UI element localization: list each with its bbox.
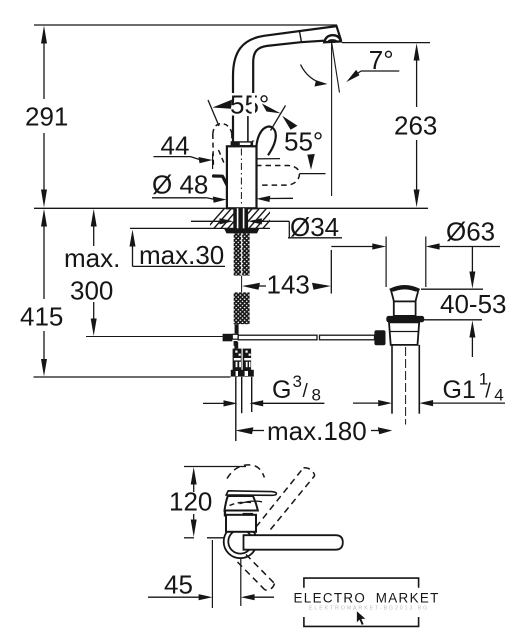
- angle 55 deg upper label: [208, 90, 276, 127]
- wire 263 top reference line: [342, 42, 430, 44]
- wire deck top line: [34, 207, 428, 209]
- threaded rod upper segment: [234, 233, 250, 275]
- pop-up drain body: [389, 322, 419, 345]
- side view handle blade: [226, 491, 276, 496]
- dimension 120: [169, 467, 246, 538]
- svg-text:120: 120: [169, 487, 212, 517]
- svg-text:max.180: max.180: [267, 416, 367, 446]
- pop-up drain neck: [391, 292, 418, 302]
- mouse cursor: [357, 611, 366, 625]
- pop-up drain cylinder: [394, 301, 416, 316]
- handle dashed outline right (capsule B): [256, 166, 299, 186]
- side view spout bar: [244, 535, 343, 550]
- dimension 40-53: [421, 247, 507, 358]
- handle lever (side, solid): [214, 176, 228, 185]
- svg-text:263: 263: [394, 111, 437, 141]
- svg-text:Ø63: Ø63: [446, 217, 495, 247]
- faucet body top black band: [231, 141, 254, 146]
- dimension G 3/8: [203, 372, 324, 407]
- drain tailpipe: [392, 345, 419, 414]
- faucet body centerline: [240, 149, 242, 207]
- rod center highlight: [241, 233, 243, 275]
- svg-text:8: 8: [312, 386, 321, 405]
- threaded shank through deck: [233, 208, 248, 228]
- pop-up drain flange: [386, 316, 424, 322]
- spout joint divider: [299, 30, 301, 42]
- dimension max.30: [130, 230, 226, 271]
- pop-up rod cross fitting: [223, 334, 239, 346]
- pop-up drain plug cap: [390, 287, 419, 291]
- svg-text:max.: max.: [64, 243, 120, 273]
- dimension 415: [20, 209, 231, 377]
- svg-text:55°: 55°: [284, 127, 323, 157]
- handle dashed outline up-left (capsule A): [213, 124, 232, 167]
- dimension 263: [394, 43, 437, 207]
- handle solid rotated-up (arch): [256, 127, 275, 156]
- svg-text:Ø 48: Ø 48: [152, 170, 208, 200]
- svg-text:300: 300: [70, 276, 113, 306]
- pop-up drain lever boss: [374, 330, 385, 345]
- svg-text:/: /: [303, 381, 309, 402]
- svg-text:max.30: max.30: [139, 240, 224, 270]
- flexible hoses: [236, 377, 252, 441]
- water stream tilted 7 deg line: [332, 42, 340, 93]
- aerator at spout tip: [324, 35, 341, 43]
- angle 55 deg lower label: [262, 104, 323, 170]
- svg-text:G: G: [272, 376, 291, 404]
- side view handle dome: [225, 496, 258, 511]
- svg-text:415: 415: [20, 302, 63, 332]
- dimension 44: [154, 131, 281, 170]
- side view dashed blade down position: [238, 555, 275, 591]
- connector flange: [231, 370, 254, 377]
- svg-text:40-53: 40-53: [440, 289, 507, 319]
- countertop hatch block: [205, 206, 283, 231]
- water stream vertical line: [331, 42, 333, 196]
- svg-text:143: 143: [267, 270, 310, 300]
- dimension 291: [25, 26, 68, 208]
- wire deck bottom line (max.30): [130, 227, 270, 229]
- svg-text:Ø34: Ø34: [290, 212, 339, 242]
- dimension diameter 34: [191, 212, 342, 242]
- spout inner line mask below 55 label: [252, 96, 255, 141]
- dimension max.180: [235, 416, 392, 446]
- dimension diameter 48: [152, 170, 293, 203]
- wire capsule B tip leader: [299, 173, 325, 175]
- svg-text:ELECTRO MARKET: ELECTRO MARKET: [294, 590, 440, 605]
- side view escutcheon circles: [224, 525, 257, 558]
- G 3/8 hose connectors: [231, 342, 254, 377]
- svg-text:G1: G1: [443, 376, 476, 404]
- svg-text:4: 4: [494, 386, 503, 405]
- angle 7 deg callout: [301, 45, 400, 87]
- svg-text:ELEKTROMARKET-BG2013.BG: ELEKTROMARKET-BG2013.BG: [309, 605, 429, 611]
- faucet spout outline: [233, 26, 341, 146]
- threaded rod lower segment: [234, 292, 250, 324]
- spout inner edge lower segment: [247, 116, 249, 142]
- dimension max.300: [64, 209, 223, 337]
- lift rod stem: [235, 324, 239, 334]
- svg-text:3: 3: [293, 372, 302, 391]
- dimension diameter 63: [331, 217, 500, 288]
- dimension 143: [242, 250, 331, 300]
- side view dashed blade up position: [227, 465, 315, 530]
- dimension G1 1/4: [353, 370, 505, 407]
- svg-text:291: 291: [25, 102, 68, 132]
- wire top reference line (spout height): [34, 24, 337, 26]
- mounting nut: [224, 228, 260, 233]
- centerline in rod gap: [241, 276, 243, 293]
- dimension 45: [148, 540, 274, 608]
- side view body: [226, 515, 256, 532]
- logo frame: [304, 578, 419, 626]
- svg-text:45: 45: [164, 570, 193, 600]
- drain tailpipe centerline: [405, 347, 407, 425]
- faucet body: [227, 146, 257, 208]
- pop-up rod to drain: [238, 335, 374, 340]
- svg-text:/: /: [485, 381, 491, 403]
